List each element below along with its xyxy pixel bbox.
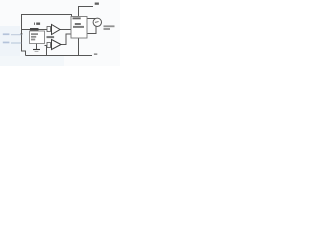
battery B1 plate short	[35, 51, 39, 53]
label trigger unit text line 2	[31, 36, 36, 38]
label module line LDR	[75, 23, 81, 25]
wire battery lead	[36, 44, 38, 50]
wire top supply rail	[22, 15, 72, 30]
wire lamp bottom return	[88, 26, 97, 34]
lamp indicator	[93, 18, 101, 26]
node junction bus	[20, 33, 22, 36]
label R1 value 1 kΩ	[34, 23, 40, 25]
module box LDR/relay	[71, 17, 87, 39]
label LM358	[47, 36, 55, 38]
wire left input bus	[22, 30, 26, 56]
wire resistor feed	[22, 29, 31, 31]
wire U2 output jog up to module	[61, 34, 71, 45]
label trigger unit text line 1	[31, 33, 38, 35]
wire U1 output to module	[60, 29, 71, 31]
label GND tick	[94, 53, 97, 55]
label input 2	[3, 42, 10, 44]
wire input 2 stub	[11, 42, 22, 44]
op-amp U1	[52, 25, 61, 35]
wire U2 input feed	[45, 45, 48, 47]
node input bracket U1	[47, 27, 51, 32]
IC box trigger unit	[30, 31, 45, 44]
label load line 2	[104, 28, 111, 30]
wire resistor to op-amp U1 input	[39, 29, 48, 31]
wire module ground pin	[78, 38, 80, 56]
label trigger unit text line 3	[31, 39, 35, 41]
op-amp U2	[52, 40, 62, 50]
label load line 1	[104, 25, 115, 27]
label module header	[73, 17, 81, 19]
label +5V supply	[95, 3, 99, 5]
wire ground bus	[26, 55, 93, 57]
wire U2 input to ground bus	[46, 46, 48, 56]
label input 1	[3, 33, 10, 35]
label module line MODULE	[73, 26, 84, 28]
battery B1 plate long	[33, 49, 40, 51]
wire input 1 stub	[11, 34, 22, 36]
background	[0, 0, 120, 66]
wire module top pin to supply	[79, 7, 94, 17]
node input bracket U2	[47, 43, 51, 48]
wire module right pin to lamp	[87, 18, 96, 21]
resistor R1	[30, 28, 39, 31]
